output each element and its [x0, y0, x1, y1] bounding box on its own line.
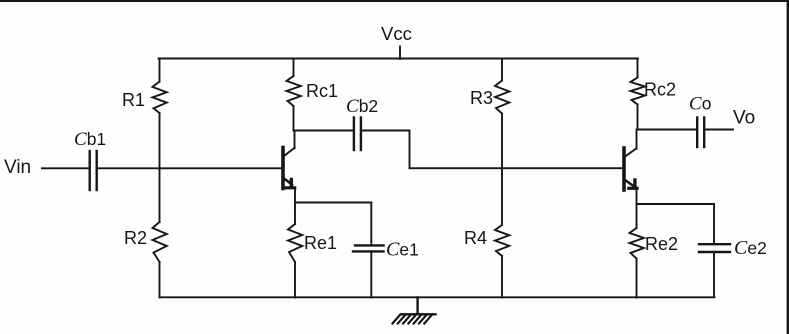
- wire emitter 1 branch to Ce1: [295, 202, 371, 204]
- resistor R1: [153, 82, 167, 114]
- resistor Rc1: [287, 76, 301, 106]
- wire down to Ce1: [370, 203, 372, 246]
- wire rail to Rc2: [637, 59, 639, 78]
- svg-text:R2: R2: [124, 228, 147, 248]
- right border line of frame: [787, 0, 789, 334]
- wire Rc1 to collector node: [293, 106, 295, 131]
- wire rail to R3: [501, 59, 503, 81]
- svg-text:Vin: Vin: [4, 157, 31, 178]
- wire Q1 emitter down: [294, 188, 296, 225]
- wire Vcc stub: [399, 47, 401, 60]
- transistor Q1: [283, 148, 296, 190]
- svg-text:Re2: Re2: [645, 234, 678, 254]
- resistor R2: [153, 222, 167, 262]
- wire corner down: [409, 131, 411, 169]
- resistor R3: [495, 81, 509, 114]
- wire Q2 collector up to node: [636, 130, 638, 149]
- wire left bias chain: rail to R1: [159, 59, 161, 82]
- wire collector node 1 to Cb2: [294, 130, 353, 132]
- wire Rc2 to collector node 2: [637, 105, 639, 130]
- wire rail to Rc1: [293, 59, 295, 77]
- wire collector node 2 to Co: [638, 129, 697, 131]
- resistor R4: [495, 225, 509, 256]
- svg-text:R4: R4: [464, 228, 487, 248]
- top border line of frame: [0, 0, 789, 2]
- wire to Q2 base (through R3/R4 junction): [410, 167, 624, 169]
- svg-text:Cb2: Cb2: [346, 96, 378, 117]
- resistor Rc2: [631, 78, 645, 105]
- wire Re2 to bottom rail: [636, 259, 638, 298]
- capacitor Ce1: [353, 245, 384, 251]
- wire Q2 emitter down: [636, 189, 638, 228]
- wire Co to Vo: [705, 129, 733, 131]
- capacitor Co: [697, 118, 704, 148]
- capacitor Ce2: [699, 244, 730, 252]
- wire Cb2 to corner: [362, 130, 409, 132]
- wire R4 to bottom rail: [501, 256, 503, 298]
- resistor Re1: [288, 224, 302, 262]
- wire top supply rail: [159, 58, 639, 60]
- svg-text:Re1: Re1: [304, 233, 337, 253]
- wire Ce1 to bottom rail: [370, 251, 372, 297]
- wire Q1 collector up to node: [294, 131, 296, 149]
- svg-text:Ce2: Ce2: [734, 237, 767, 259]
- resistor Re2: [630, 228, 644, 259]
- svg-text:Vcc: Vcc: [381, 23, 412, 44]
- svg-text:R1: R1: [122, 90, 145, 110]
- wire Ce2 to bottom rail: [713, 252, 715, 297]
- svg-text:Co: Co: [689, 94, 711, 115]
- svg-text:Rc1: Rc1: [306, 81, 338, 101]
- svg-text:Cb1: Cb1: [74, 129, 106, 150]
- wire Cb1 to Q1 base (through R1/R2 junction): [98, 167, 282, 169]
- svg-text:Rc2: Rc2: [644, 80, 676, 100]
- svg-text:Ce1: Ce1: [386, 239, 419, 261]
- capacitor Cb2: [354, 118, 361, 151]
- capacitor Cb1: [90, 151, 97, 190]
- wire R1 to R2 (junction at input): [159, 113, 161, 222]
- wire R2 to bottom rail: [159, 262, 161, 298]
- ground: [393, 298, 436, 324]
- svg-text:R3: R3: [470, 88, 493, 108]
- wire bottom ground rail: [160, 296, 715, 298]
- wire emitter 2 branch to Ce2: [637, 203, 715, 205]
- svg-text:Vo: Vo: [733, 108, 755, 129]
- wire R3 to R4: [501, 114, 503, 226]
- wire Vin to Cb1: [42, 167, 89, 169]
- transistor Q2: [624, 148, 639, 190]
- wire Re1 to bottom rail: [294, 262, 296, 298]
- wire down to Ce2: [713, 204, 715, 244]
